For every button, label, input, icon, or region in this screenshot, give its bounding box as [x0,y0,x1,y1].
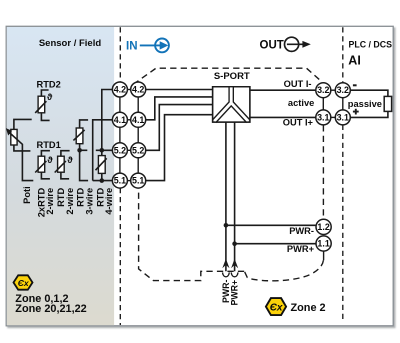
resistor RTD 3-wire [73,120,88,181]
svg-text:RTD2: RTD2 [37,79,61,89]
svg-text:OUT I-: OUT I- [284,79,312,89]
wire dashed sensor boundary upper [119,27,121,82]
terminal 4.2 (device side) [131,82,146,97]
wire pair link 5.2 [127,149,131,151]
junction dot PWR+ [232,241,237,246]
svg-text:PWR+: PWR+ [230,280,240,306]
svg-text:3.1: 3.1 [317,112,329,122]
wire PWR- branch to 1.2 [226,224,316,226]
wire PLC/DCS dashed boundary [342,27,344,322]
terminal 4.1 (device side) [131,112,146,127]
svg-text:3.2: 3.2 [337,85,349,95]
isolator S-PORT box U1 [213,87,250,122]
potentiometer Poti [6,119,33,180]
wire 4.1 to U1 [146,97,213,120]
svg-text:Єx: Єx [18,278,30,288]
wire link 4.1-5.2 field [119,127,121,143]
svg-text:PWR-: PWR- [289,226,314,236]
svg-text:RTD1: RTD1 [37,140,61,150]
wires right column circles to S-PORT box [146,90,213,181]
arrow PWR+ supply [231,259,238,277]
svg-text:5.2: 5.2 [114,145,126,155]
wire dashed PLC boundary upper [342,27,344,83]
svg-text:Poti: Poti [22,186,32,204]
terminal 5.1 (field side) [112,173,127,188]
solid links between terminal circles right column [137,97,139,174]
terminal 3.1 (PLC side) [335,110,350,125]
links between 3.x circle pairs [323,90,343,117]
junction dot 4-wire bottom [100,178,105,183]
wire 5.1 to U1 [146,115,213,181]
wire pair link 4.2 [127,89,131,91]
svg-text:Zone 2: Zone 2 [291,302,326,314]
sensor/field blue panel [7,27,114,325]
svg-text:2-wire: 2-wire [45,188,55,215]
wire link 5.2-5.1 device [137,157,139,173]
wire PWR+ branch to 1.1 [235,243,317,245]
svg-text:Sensor / Field: Sensor / Field [39,38,101,49]
wire passive loop top [350,90,388,96]
svg-text:PLC / DCS: PLC / DCS [349,40,393,50]
svg-text:IN: IN [126,40,138,52]
svg-text:3.1: 3.1 [337,112,349,122]
wire dashed outline bottom left [139,188,245,281]
svg-text:3-wire: 3-wire [84,188,94,215]
Ex badge field side [14,275,33,289]
wire pair link 4.1 [127,119,131,121]
wire PWR- vertical [225,122,227,271]
wire PWR+ vertical [234,122,236,271]
wire dashed outline bottom right curve [245,260,324,281]
svg-text:Єx: Єx [270,302,283,313]
label plus [353,109,359,115]
svg-text:3.2: 3.2 [317,85,329,95]
svg-text:ϑ: ϑ [47,155,53,165]
svg-text:PWR+: PWR+ [287,244,315,254]
wire OUT I- from box to 3.2 [250,89,316,91]
svg-text:S-PORT: S-PORT [214,71,250,82]
svg-text:OUT I+: OUT I+ [283,118,314,128]
node OUT (output symbol) [260,37,311,51]
terminal 5.2 (field side) [112,143,127,158]
wire pair link 5.1 [127,180,131,182]
svg-text:5.1: 5.1 [132,176,144,186]
arrow PWR- supply [222,259,229,277]
svg-text:5.2: 5.2 [132,145,144,155]
wire link 3.2-3.1 PLC [342,97,344,110]
wire pair link 3.1 [330,116,335,118]
svg-text:4.1: 4.1 [114,115,126,125]
wire 4.2 jumper to 5.2 bus [102,90,113,151]
resistor RTD 2-wire [55,151,70,179]
svg-text:5.1: 5.1 [114,176,126,186]
wire 4.2 to U1 [146,89,213,91]
svg-text:2-wire: 2-wire [65,188,75,215]
label minus [353,84,357,86]
svg-text:Zone 20,21,22: Zone 20,21,22 [15,303,86,315]
svg-text:1.1: 1.1 [317,239,329,249]
stub below 1.1 [323,251,325,260]
terminal 3.2 (device side) [316,83,331,98]
svg-text:ϑ: ϑ [67,155,73,165]
svg-text:AI: AI [348,53,361,67]
wire 5.1 bus right segment [93,180,113,182]
terminal 5.1 (device side) [131,173,146,188]
wire 4.1 jumper to 5.1 bus [93,120,113,181]
resistor RTD 4-wire [96,150,107,180]
wire link 3.2-3.1 device [322,97,324,110]
wire pair link 3.2 [330,89,335,91]
svg-text:1.2: 1.2 [317,222,329,232]
wire link 4.2-4.1 device [137,97,139,113]
wire link 5.2-5.1 field [119,157,121,173]
wire passive loop bottom [350,111,388,117]
terminal 4.1 (field side) [112,112,127,127]
svg-text:4.1: 4.1 [132,115,144,125]
wire dashed sensor boundary lower [119,188,121,325]
svg-text:OUT: OUT [260,39,284,51]
wire dashed outline right edge [322,125,324,218]
terminal 3.2 (PLC side) [335,83,350,98]
wire OUT I+ from box to 3.1 [250,116,316,118]
wire link 4.1-5.2 device [137,127,139,143]
node IN (input symbol) [126,39,169,53]
wire dashed device outline [133,68,323,281]
resistor passive load [384,96,391,111]
junction dot 3-wire bottom [77,148,82,153]
terminal 4.2 (field side) [112,82,127,97]
svg-text:ϑ: ϑ [47,92,53,102]
wire sensor/field dashed boundary [119,27,121,325]
solid links between terminal circles left column [119,97,121,174]
svg-text:4.2: 4.2 [114,85,126,95]
terminal 5.2 (device side) [131,143,146,158]
svg-text:4.2: 4.2 [132,85,144,95]
svg-text:4-wire: 4-wire [104,188,114,215]
wire 5.2 to U1 [146,105,213,151]
svg-text:active: active [288,98,314,108]
wire dashed PLC boundary lower [342,125,344,322]
terminal 1.2 [316,219,331,234]
wire dashed outline top edge [133,68,321,84]
wire 5.2 bus right segment [96,149,113,151]
Ex badge zone 2 [266,298,286,315]
rotated column labels [22,186,114,217]
links between circle pairs [127,90,131,181]
terminal 1.1 [316,236,331,251]
junction dot PWR- [224,223,229,228]
wire link 4.2-4.1 field [119,97,121,113]
terminal 3.1 (device side) [316,110,331,125]
junction dot 4-wire top [100,148,105,153]
resistor RTD2 [35,90,49,120]
resistor RTD1 [35,151,50,179]
svg-text:passive: passive [348,99,382,109]
